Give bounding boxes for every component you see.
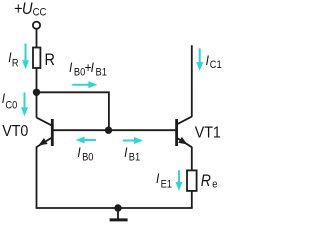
svg-text:VT0: VT0	[2, 124, 28, 141]
svg-text:R: R	[45, 51, 55, 69]
svg-text:VT1: VT1	[195, 125, 221, 142]
